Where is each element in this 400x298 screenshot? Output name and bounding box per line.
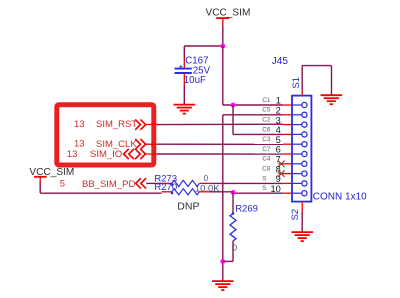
wire R273 to pin9: [210, 182, 283, 184]
label J45: [272, 56, 289, 67]
svg-text:C4: C4: [262, 156, 271, 163]
svg-text:9: 9: [276, 174, 281, 184]
ground under C167: [174, 105, 196, 114]
pin 8 of J45 no-connect: [262, 164, 307, 176]
label CONN 1x10: [313, 192, 367, 203]
wire SIM_CLK to pin5: [145, 143, 283, 145]
label R269: [235, 203, 258, 214]
svg-text:13: 13: [67, 149, 78, 160]
svg-text:10: 10: [270, 184, 280, 194]
junction dot R269 top: [231, 190, 236, 195]
power symbol VCC_SIM top bar: [216, 18, 229, 25]
svg-text:DNP: DNP: [177, 200, 199, 212]
wire pin1 row horizontal: [223, 104, 283, 106]
svg-text:13: 13: [74, 119, 85, 130]
wire VCC left down and right to R270: [40, 181, 161, 193]
wire VCC branch down to pin4 row: [233, 105, 283, 134]
svg-text:6: 6: [276, 145, 281, 155]
label S2: [290, 209, 301, 221]
junction dot pin1 row: [231, 103, 236, 108]
svg-text:5: 5: [276, 135, 281, 145]
label R273: [154, 173, 177, 184]
node VCC_SIM top label: [206, 8, 251, 19]
label C167 value 25V 10uF: [184, 55, 211, 86]
wire S2 to ground: [301, 212, 303, 232]
svg-text:2: 2: [276, 106, 281, 116]
wire GND vertical down to ground: [222, 115, 224, 281]
svg-text:0: 0: [233, 243, 238, 252]
pin S2 bottom stub: [301, 202, 303, 212]
wire R270 to pin10: [210, 192, 283, 193]
red box highlight: [57, 105, 154, 165]
svg-text:4: 4: [276, 125, 281, 135]
svg-text:S2: S2: [290, 209, 301, 221]
label 5 BB_SIM_PD: [60, 179, 136, 190]
pin 2 of J45: [262, 106, 307, 118]
svg-text:CONN 1x10: CONN 1x10: [313, 192, 367, 203]
svg-text:SIM_RST: SIM_RST: [96, 119, 137, 130]
wire SIM_IO to pin6: [145, 153, 283, 155]
label R270: [154, 182, 177, 193]
svg-text:C1: C1: [262, 97, 271, 104]
svg-text:10uF: 10uF: [184, 75, 206, 86]
svg-text:0: 0: [204, 174, 209, 183]
pin 6 of J45: [262, 145, 307, 157]
wire VCC vertical from power to junction: [222, 26, 224, 47]
port arrow BB_SIM_PD in: [136, 178, 146, 188]
pin 10 of J45: [262, 184, 307, 196]
svg-text:S: S: [262, 175, 266, 182]
no-connect X pin 7: [278, 161, 285, 168]
wire VCC branch left to capacitor: [184, 46, 223, 60]
svg-text:R269: R269: [235, 203, 258, 214]
wire capacitor to ground: [183, 85, 185, 104]
svg-text:BB_SIM_PD: BB_SIM_PD: [82, 179, 135, 190]
capacitor C167: [175, 60, 192, 86]
pin S1 top stub: [301, 91, 303, 96]
svg-text:C3: C3: [262, 136, 271, 143]
wire S1 to ground: [302, 66, 331, 95]
resistor R270: [162, 189, 210, 195]
value 0 of R269: [233, 243, 238, 252]
svg-text:VCC_SIM: VCC_SIM: [206, 8, 251, 19]
svg-text:3: 3: [276, 115, 281, 125]
svg-text:C5: C5: [262, 107, 271, 114]
svg-text:C6: C6: [262, 126, 271, 133]
pin 9 of J45: [262, 174, 307, 186]
svg-text:5: 5: [60, 179, 65, 190]
label 13 SIM_IO: [67, 149, 122, 160]
port arrow SIM_RST out: [135, 119, 145, 129]
junction dot R269 bottom: [220, 259, 225, 264]
pin 5 of J45: [262, 135, 307, 147]
svg-text:SIM_IO: SIM_IO: [90, 149, 122, 160]
port arrow SIM_IO bidirectional: [124, 149, 146, 159]
value 0 of R273: [204, 174, 209, 183]
pin 3 of J45: [262, 115, 307, 127]
ground under GND vertical: [212, 281, 234, 290]
no-connect X pin 8: [278, 170, 285, 177]
pin 7 of J45 no-connect: [262, 155, 307, 167]
port arrow SIM_CLK out: [135, 139, 145, 149]
label DNP: [177, 200, 199, 212]
svg-text:R270: R270: [154, 182, 177, 193]
junction dot VCC top: [220, 44, 225, 49]
ground right of J45: [321, 95, 343, 104]
ground under S2: [291, 232, 313, 241]
wire SIM_RST to pin3: [145, 123, 283, 125]
value 10.0K of R270: [195, 184, 220, 195]
pin 1 of J45: [262, 96, 307, 108]
resistor R269: [223, 192, 236, 261]
svg-text:C8: C8: [262, 166, 271, 173]
svg-text:J45: J45: [272, 56, 289, 67]
label 13 SIM_RST: [74, 119, 137, 130]
label S1: [291, 77, 302, 89]
svg-text:1: 1: [276, 96, 281, 106]
svg-text:S: S: [262, 185, 266, 192]
wire GND pin2 row horizontal: [223, 114, 283, 116]
svg-text:10.0K: 10.0K: [195, 184, 220, 195]
svg-text:C7: C7: [262, 146, 271, 153]
svg-text:S1: S1: [291, 77, 302, 89]
wire BB_SIM_PD to R273: [146, 182, 161, 184]
node VCC_SIM left label: [29, 167, 74, 178]
wire VCC vertical to pin1 row: [222, 46, 224, 105]
resistor R273: [162, 180, 210, 186]
label 13 SIM_CLK: [74, 139, 137, 150]
connector J45 body: [292, 96, 311, 202]
pin 4 of J45: [262, 125, 307, 137]
svg-text:C2: C2: [262, 117, 271, 124]
power symbol VCC_SIM left bar: [34, 177, 47, 181]
